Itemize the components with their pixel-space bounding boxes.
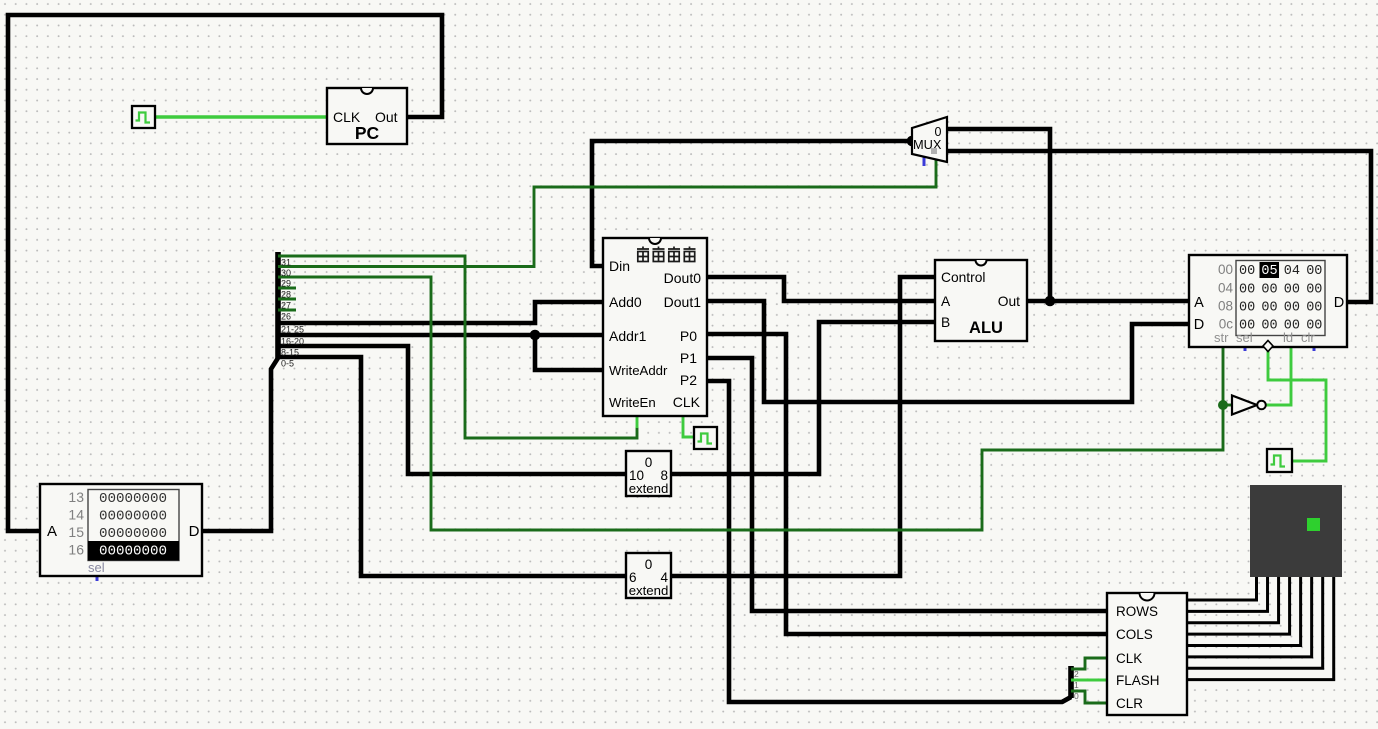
svg-text:str: str	[1214, 330, 1229, 345]
svg-text:00: 00	[1239, 301, 1255, 316]
svg-text:2: 2	[1074, 669, 1079, 679]
svg-text:00: 00	[1284, 301, 1300, 316]
svg-text:ALU: ALU	[969, 319, 1003, 337]
svg-text:CLR: CLR	[1116, 696, 1143, 711]
svg-text:21-25: 21-25	[281, 325, 304, 335]
svg-text:D: D	[1334, 295, 1344, 311]
svg-text:00: 00	[1306, 283, 1322, 298]
svg-text:13: 13	[68, 489, 84, 505]
svg-text:26: 26	[281, 312, 291, 322]
svg-text:00000000: 00000000	[99, 509, 167, 525]
svg-text:31: 31	[281, 258, 291, 268]
svg-text:CLK: CLK	[1116, 651, 1142, 666]
svg-text:PC: PC	[355, 123, 380, 143]
svg-text:Control: Control	[941, 270, 985, 285]
svg-text:00: 00	[1261, 319, 1277, 334]
svg-text:8-15: 8-15	[281, 348, 299, 358]
svg-text:Addr1: Addr1	[609, 328, 647, 344]
svg-text:P0: P0	[680, 328, 697, 344]
svg-text:00: 00	[1218, 262, 1233, 277]
svg-text:D: D	[1194, 317, 1204, 333]
svg-text:00000000: 00000000	[99, 491, 167, 507]
svg-text:16-20: 16-20	[281, 337, 304, 347]
svg-text:A: A	[47, 523, 57, 540]
svg-text:CLK: CLK	[673, 394, 701, 410]
svg-text:00: 00	[1261, 301, 1277, 316]
svg-text:29: 29	[281, 279, 291, 289]
svg-text:A: A	[1194, 295, 1204, 311]
svg-text:sel: sel	[1236, 330, 1253, 345]
svg-text:28: 28	[281, 290, 291, 300]
svg-text:extend: extend	[629, 481, 669, 496]
svg-text:04: 04	[1218, 281, 1234, 296]
svg-text:A: A	[941, 294, 951, 309]
svg-text:Dout0: Dout0	[664, 270, 702, 286]
svg-text:B: B	[941, 315, 950, 330]
svg-text:sel: sel	[88, 560, 105, 575]
svg-text:Dout1: Dout1	[664, 294, 702, 310]
svg-text:14: 14	[68, 507, 84, 523]
svg-text:0: 0	[645, 455, 653, 470]
svg-text:0-5: 0-5	[281, 359, 294, 369]
svg-text:WriteEn: WriteEn	[609, 395, 656, 410]
svg-text:P2: P2	[680, 372, 697, 388]
svg-text:04: 04	[1284, 264, 1300, 279]
svg-text:D: D	[189, 523, 200, 540]
svg-text:00: 00	[1261, 283, 1277, 298]
svg-text:16: 16	[68, 542, 84, 558]
svg-text:00: 00	[1306, 301, 1322, 316]
svg-text:00: 00	[1239, 283, 1255, 298]
svg-text:30: 30	[281, 268, 291, 278]
svg-text:Din: Din	[609, 258, 630, 274]
svg-text:clr: clr	[1301, 330, 1315, 345]
svg-text:FLASH: FLASH	[1116, 673, 1160, 688]
svg-text:00: 00	[1239, 264, 1255, 279]
svg-text:00: 00	[1306, 264, 1322, 279]
svg-text:ROWS: ROWS	[1116, 604, 1158, 619]
svg-text:COLS: COLS	[1116, 627, 1153, 642]
svg-text:08: 08	[1218, 299, 1233, 314]
svg-text:00000000: 00000000	[99, 544, 167, 560]
svg-text:Out: Out	[998, 294, 1020, 309]
svg-text:00: 00	[1284, 283, 1300, 298]
svg-text:P1: P1	[680, 350, 697, 366]
svg-text:ld: ld	[1283, 330, 1293, 345]
svg-text:extend: extend	[629, 583, 669, 598]
svg-text:0: 0	[1074, 691, 1079, 701]
svg-text:MUX: MUX	[913, 137, 942, 152]
svg-text:15: 15	[68, 524, 84, 540]
svg-text:1: 1	[1074, 680, 1079, 690]
svg-text:WriteAddr: WriteAddr	[609, 363, 668, 378]
svg-text:0: 0	[645, 557, 653, 572]
svg-text:Add0: Add0	[609, 294, 642, 310]
svg-text:27: 27	[281, 301, 291, 311]
svg-text:00000000: 00000000	[99, 526, 167, 542]
svg-text:05: 05	[1261, 264, 1277, 279]
